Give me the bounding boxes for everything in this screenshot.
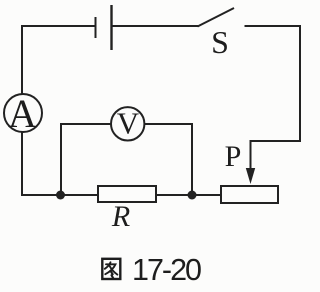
svg-text:R: R [111, 200, 130, 233]
svg-text:17-20: 17-20 [132, 253, 201, 287]
svg-text:P: P [225, 140, 242, 173]
svg-text:V: V [117, 106, 140, 141]
svg-text:S: S [211, 24, 229, 60]
svg-text:A: A [8, 91, 37, 136]
